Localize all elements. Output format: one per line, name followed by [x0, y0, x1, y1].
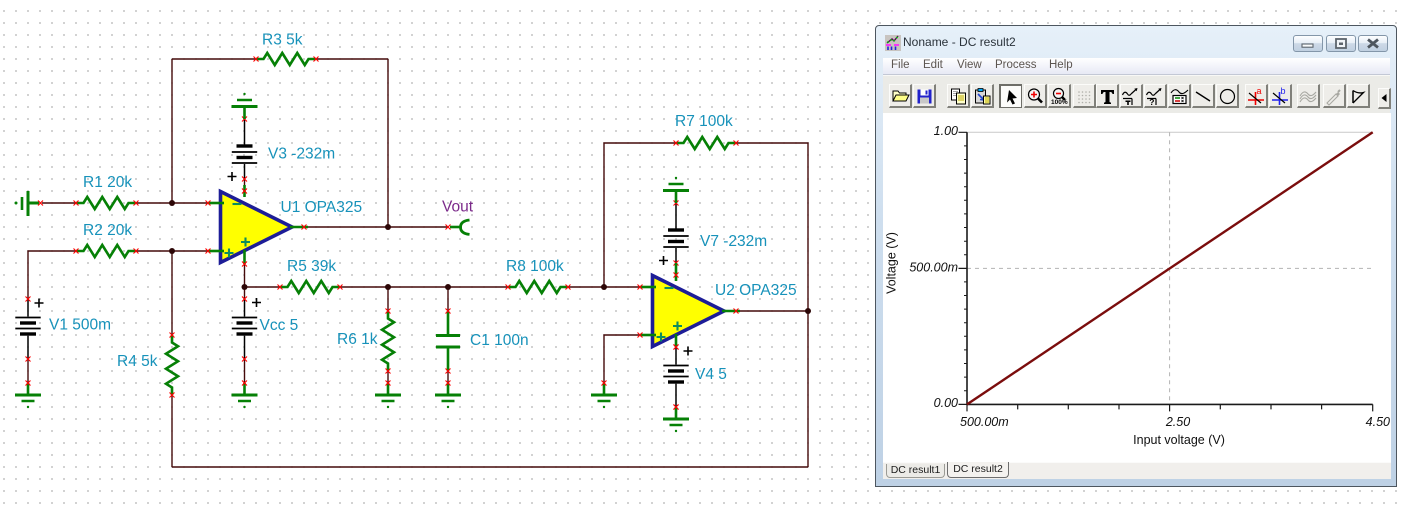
close button [1358, 35, 1388, 52]
toolbar button picker (disabled) [1323, 84, 1346, 108]
toolbar button zoom 100% [1048, 84, 1071, 108]
node D (U2 out) [805, 308, 811, 314]
svg-text:C1 100n: C1 100n [470, 332, 529, 349]
svg-text:R5 39k: R5 39k [287, 258, 336, 275]
toolbar button legend [1168, 84, 1191, 108]
wire R1 to U1- node [136, 202, 208, 204]
op-amp U2 OPA325 [638, 263, 741, 350]
ground for V4 [663, 405, 689, 433]
wire V7 bottom to U2 top pin [675, 263, 677, 275]
node supply/Vcc/R5 [242, 284, 248, 290]
toolbar [883, 75, 1390, 115]
toolbar button next curve [1347, 84, 1370, 108]
node B (R5/R6) [385, 284, 391, 290]
menu File [891, 59, 910, 71]
wire supply node to R5 [245, 286, 281, 288]
toolbar button cursor a [1245, 84, 1268, 108]
menu Edit [923, 59, 943, 71]
svg-text:?: ? [1149, 97, 1154, 106]
wire V3 to U1 top pin [244, 179, 246, 191]
battery V1 [15, 297, 43, 362]
wire R3 right to corner [316, 58, 388, 60]
wire R6 bottom to ground [387, 371, 389, 383]
resistor R6 [382, 309, 394, 374]
battery V7 (inverted) [659, 201, 689, 266]
wire bottom rail [172, 466, 808, 468]
y axis ticks [959, 132, 968, 404]
menu View [957, 59, 982, 71]
wire bottom rail up to U2 output [807, 311, 809, 467]
svg-text:R8 100k: R8 100k [506, 258, 564, 275]
wire node C to R8 [448, 286, 508, 288]
node U2- [601, 284, 607, 290]
wire down to output net [387, 59, 389, 227]
svg-text:R1 20k: R1 20k [83, 174, 132, 191]
toolbar button line [1192, 84, 1215, 108]
toolbar button waves (disabled) [1297, 84, 1320, 108]
ground for V1 [15, 381, 41, 409]
wire U1+ node down to R4 [171, 251, 173, 335]
resistor R4 [166, 333, 178, 398]
svg-text:2.50: 2.50 [1165, 415, 1190, 429]
menu bar [883, 58, 1390, 75]
svg-text:U1 OPA325: U1 OPA325 [281, 199, 363, 216]
svg-text:V3 -232m: V3 -232m [268, 146, 335, 163]
wire V1 bottom to ground [27, 359, 29, 383]
wire V1 top to R2 [28, 251, 76, 299]
gridline 500.00m dashed [967, 267, 1373, 269]
capacitor C1 [436, 309, 460, 374]
node C (C1/R8) [445, 284, 451, 290]
toolbar button zoom in [1024, 84, 1047, 108]
svg-text:1.00: 1.00 [934, 124, 958, 138]
toolbar button paste [971, 84, 994, 108]
svg-text:R6 1k: R6 1k [337, 331, 378, 348]
wire R7 right to output column [736, 143, 808, 311]
battery V3 (inverted) [228, 117, 258, 182]
toolbar button text T [1096, 84, 1119, 108]
wire node A up to R3 [171, 59, 173, 203]
svg-text:R2 20k: R2 20k [83, 222, 132, 239]
toolbar overflow arrow [1378, 88, 1391, 109]
ground for R6 [375, 381, 401, 409]
maximize button [1326, 35, 1356, 52]
wire C1 bottom to ground [447, 371, 449, 383]
svg-text:V7 -232m: V7 -232m [700, 233, 767, 250]
svg-text:V4 5: V4 5 [695, 366, 727, 383]
trace V(out) vs input [967, 132, 1373, 404]
resistor R8 [506, 281, 571, 293]
ground for C1 [435, 381, 461, 409]
svg-text:500.00m: 500.00m [909, 260, 958, 274]
wire U2 output to node D [740, 310, 808, 312]
toolbar button cursor b [1269, 84, 1292, 108]
wire node B to node C [388, 286, 448, 288]
battery V4 [663, 345, 692, 410]
gridline 2.50 dashed vertical [1169, 132, 1171, 404]
wire C1 top [447, 287, 449, 311]
menu Process [995, 59, 1037, 71]
gridline top 1.00 [967, 131, 1373, 133]
inverted ground above V7 [663, 177, 689, 203]
toolbar button circle [1216, 84, 1239, 108]
wire U2+ to ground branch [604, 335, 640, 383]
svg-text:100%: 100% [1051, 99, 1068, 106]
window icon [885, 35, 901, 51]
menu Help [1049, 59, 1073, 71]
svg-text:500.00m: 500.00m [960, 415, 1009, 429]
toolbar button grid (disabled) [1073, 84, 1096, 108]
wire U1 output to Vout [308, 226, 448, 228]
wire input to R1 [42, 202, 76, 204]
wire R2 to U1+ node [136, 250, 208, 252]
x axis [967, 403, 1373, 405]
toolbar button open [889, 84, 912, 108]
svg-text:Input voltage (V): Input voltage (V) [1133, 433, 1225, 447]
toolbar button save [913, 84, 936, 108]
svg-text:U2 OPA325: U2 OPA325 [715, 282, 797, 299]
svg-text:R7 100k: R7 100k [675, 113, 733, 130]
resistor R1 [74, 197, 139, 209]
wire top to R3 left [172, 58, 256, 60]
resistor R5 [278, 281, 343, 293]
window title [903, 35, 1016, 49]
svg-text:R3 5k: R3 5k [262, 32, 303, 49]
wire U1 bottom pin to supply node [244, 264, 246, 299]
battery Vcc [232, 297, 261, 362]
wire Vcc bottom to ground [244, 359, 246, 383]
toolbar button annotate curve T [1120, 84, 1143, 108]
y axis [966, 132, 968, 404]
svg-text:0.00: 0.00 [934, 396, 958, 410]
toolbar button pointer (selected) [999, 84, 1022, 108]
wire R7 left vertical [604, 143, 676, 287]
plot client area [883, 113, 1391, 462]
ground for U2+ input [591, 381, 617, 409]
output terminal Vout [446, 220, 470, 234]
tab strip [883, 462, 1391, 479]
x axis ticks [967, 404, 1373, 411]
wire R6 top [387, 287, 389, 311]
resistor R2 [74, 245, 139, 257]
svg-text:4.50: 4.50 [1366, 415, 1390, 429]
svg-text:b: b [1281, 87, 1286, 96]
toolbar button copy [947, 84, 970, 108]
wire R8 to U2- node [568, 286, 640, 288]
svg-text:Vcc 5: Vcc 5 [260, 317, 299, 334]
toolbar button annotate curve ? [1144, 84, 1167, 108]
minimize button [1293, 35, 1323, 52]
svg-text:R4 5k: R4 5k [117, 353, 158, 370]
svg-text:V1 500m: V1 500m [49, 317, 111, 334]
inverted ground above V3 [232, 93, 258, 119]
resistor R3 [254, 53, 319, 65]
node A (R1/U1-) [169, 200, 175, 206]
wire R4 bottom to bottom rail [171, 395, 173, 467]
node R2/U1+ [169, 248, 175, 254]
input terminal [15, 191, 44, 216]
tab DC result2 (selected) [947, 462, 1009, 478]
svg-text:Voltage (V): Voltage (V) [885, 232, 899, 294]
wire R5 to node B [340, 286, 388, 288]
op-amp U1 OPA325 [206, 185, 309, 267]
resistor R7 [674, 137, 739, 149]
tab DC result1 [886, 464, 945, 478]
svg-text:Vout: Vout [442, 199, 474, 216]
ground for Vcc [232, 381, 258, 409]
node output/R3 [385, 224, 391, 230]
svg-text:a: a [1257, 87, 1262, 96]
